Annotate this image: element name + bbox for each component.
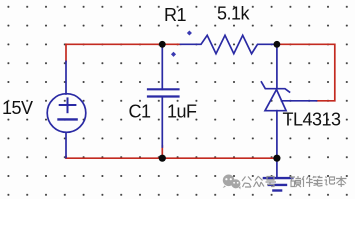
svg-text:C1: C1 xyxy=(129,102,151,122)
svg-text:TL4313: TL4313 xyxy=(283,110,342,130)
svg-text:15V: 15V xyxy=(2,98,33,118)
svg-text:R1: R1 xyxy=(164,5,186,25)
svg-text:5.1k: 5.1k xyxy=(217,4,251,24)
svg-text:1uF: 1uF xyxy=(167,102,197,122)
